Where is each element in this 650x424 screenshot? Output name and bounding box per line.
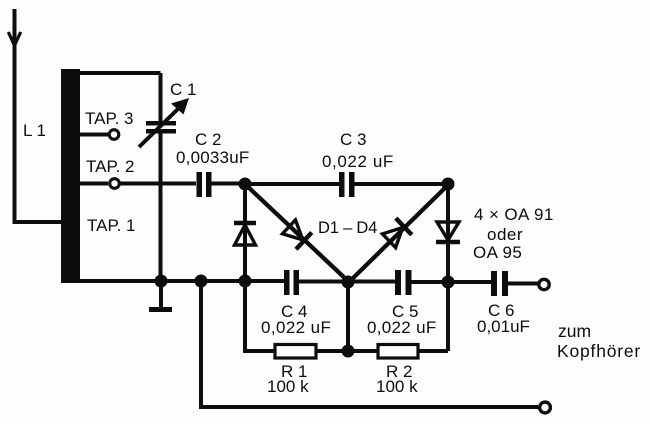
wire: C6 to output terminal: [508, 282, 539, 286]
wire: C1 branch lower segment: [159, 133, 163, 281]
diode D4: [436, 222, 460, 242]
capacitor C4: [284, 270, 299, 295]
wire: rail drop to bottom output: [201, 281, 538, 407]
svg-text:0,0033uF: 0,0033uF: [176, 148, 249, 167]
svg-text:TAP. 3: TAP. 3: [85, 109, 134, 128]
wire: R1 to center node: [316, 349, 348, 353]
bottom rail: coil bottom to C4: [61, 279, 284, 283]
diode D3: [381, 218, 412, 249]
wire: node A to C3: [245, 182, 339, 186]
svg-text:zum: zum: [558, 321, 591, 341]
wire: center node to R2: [348, 349, 378, 353]
TAP.2 wire: [80, 182, 108, 186]
node: D4 branch at rail: [442, 276, 455, 289]
svg-text:C 2: C 2: [195, 130, 221, 149]
svg-text:C 3: C 3: [340, 130, 366, 149]
output terminal circle (bottom): [540, 402, 551, 413]
wire: C3 to node B: [355, 182, 449, 186]
svg-text:100 k: 100 k: [376, 377, 418, 396]
svg-text:TAP. 2: TAP. 2: [86, 157, 135, 176]
svg-text:oder: oder: [487, 225, 523, 244]
node B junction: [442, 178, 455, 191]
wire: TAP.2 to C2: [120, 182, 196, 186]
wire: C2 to node A: [212, 182, 246, 186]
TAP.3 terminal circle: [109, 130, 119, 140]
svg-text:0,022 uF: 0,022 uF: [322, 152, 394, 171]
svg-text:Kopfhörer: Kopfhörer: [557, 341, 641, 361]
svg-text:D1 – D4: D1 – D4: [318, 219, 377, 237]
ground symbol: [149, 281, 172, 310]
variable capacitor C1: [139, 98, 189, 147]
bottom rail: C5 to C6: [412, 280, 492, 284]
TAP.3 wire: [80, 133, 108, 137]
svg-text:100 k: 100 k: [267, 377, 309, 396]
wire: R2 to D4 branch: [418, 349, 448, 353]
node: C1 branch at rail: [155, 275, 168, 288]
svg-text:0,01uF: 0,01uF: [477, 317, 530, 336]
node: R1/R2 junction: [342, 345, 355, 358]
svg-text:L 1: L 1: [23, 121, 46, 140]
node: output drop at rail: [195, 275, 208, 288]
capacitor C5: [395, 270, 412, 295]
wire: D1 branch down to R1: [245, 281, 275, 351]
svg-text:4 × OA 91: 4 × OA 91: [474, 205, 554, 224]
capacitor C3: [339, 172, 355, 197]
wire: coil top to C1 branch: [61, 71, 161, 75]
svg-text:TAP. 1: TAP. 1: [87, 216, 136, 235]
svg-text:0,022 uF: 0,022 uF: [261, 318, 331, 337]
TAP.2 terminal circle: [110, 179, 120, 189]
svg-text:0,022 uF: 0,022 uF: [367, 318, 437, 337]
wire: right diagonal center node to node B: [349, 185, 448, 282]
antenna wire with down arrow: [8, 9, 61, 222]
capacitor C6: [491, 271, 508, 296]
wire: D4 branch down to R2: [446, 282, 450, 351]
diode D2: [281, 218, 312, 249]
wire: center bridge node down: [346, 282, 350, 351]
resistor R1: [275, 345, 316, 359]
coil L1 (winding bar): [61, 69, 80, 282]
wire: node A down through D1 to rail: [243, 184, 247, 281]
wire: left diagonal node A to center node: [246, 185, 349, 282]
diode D1: [234, 223, 256, 245]
resistor R2: [378, 345, 418, 359]
bottom rail: C4 to C5: [299, 280, 395, 284]
node: D1 branch at rail: [239, 275, 252, 288]
svg-text:OA 95: OA 95: [473, 243, 522, 262]
node A junction: [239, 178, 252, 191]
svg-text:C 1: C 1: [170, 80, 196, 99]
node: center bridge at rail: [342, 276, 355, 289]
wire: node B down through D4 to rail: [446, 184, 450, 282]
wire: C1 branch upper segment: [159, 73, 163, 121]
output terminal circle (top): [539, 279, 549, 289]
capacitor C2: [197, 172, 212, 197]
